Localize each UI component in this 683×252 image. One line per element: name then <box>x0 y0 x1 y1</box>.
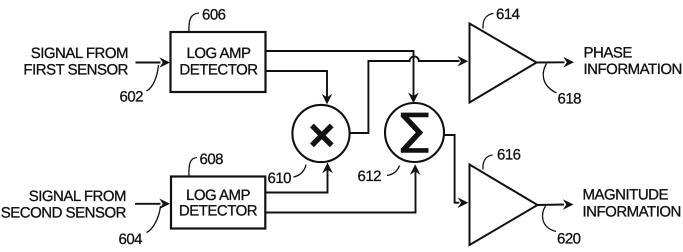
svg-text:616: 616 <box>497 147 521 164</box>
svg-text:620: 620 <box>557 231 581 248</box>
multiplier 610 circle with X symbol <box>292 105 349 162</box>
amplifier 616 triangle <box>470 165 538 246</box>
svg-text:610: 610 <box>268 170 292 187</box>
wire: multiplier 610 output up and right into amplifier 614 (hops over summer input wire) <box>350 56 469 133</box>
reference numeral 608 with leader <box>189 151 223 176</box>
reference numeral 602 with leader <box>120 65 159 106</box>
block: LOG AMP DETECTOR 606 <box>171 32 266 92</box>
node: SIGNAL FROM SECOND SENSOR input label <box>1 188 127 222</box>
wire: detector 606 upper output down into summer 612 <box>266 51 419 103</box>
reference numeral 612 with leader <box>358 166 400 186</box>
svg-text:612: 612 <box>358 168 382 185</box>
block: LOG AMP DETECTOR 608 <box>171 177 265 229</box>
svg-text:FIRST SENSOR: FIRST SENSOR <box>23 62 128 79</box>
wire: second sensor input arrow into detector 608 <box>135 199 170 210</box>
svg-text:LOG AMP: LOG AMP <box>186 45 251 62</box>
reference numeral 614 with leader <box>483 6 520 29</box>
wire: amplifier 614 output arrow to phase information <box>537 57 575 68</box>
svg-text:DETECTOR: DETECTOR <box>179 203 258 220</box>
svg-text:SIGNAL FROM: SIGNAL FROM <box>29 188 126 205</box>
node: PHASE INFORMATION output label <box>584 45 682 79</box>
wire: detector 608 upper output up into multiplier 610 <box>265 163 333 193</box>
node: MAGNITUDE INFORMATION output label <box>583 187 681 221</box>
svg-text:INFORMATION: INFORMATION <box>584 61 682 78</box>
svg-text:614: 614 <box>496 6 520 23</box>
wire: detector 606 lower output down into multiplier 610 <box>266 71 333 104</box>
wire: amplifier 616 output arrow to magnitude information <box>538 199 574 210</box>
svg-text:INFORMATION: INFORMATION <box>583 204 681 221</box>
svg-text:SECOND SENSOR: SECOND SENSOR <box>1 205 127 222</box>
amplifier 614 triangle <box>470 24 537 103</box>
svg-text:606: 606 <box>202 7 226 24</box>
reference numeral 620 with leader <box>543 206 581 248</box>
reference numeral 616 with leader <box>483 147 521 170</box>
svg-text:SIGNAL FROM: SIGNAL FROM <box>31 45 128 62</box>
svg-text:602: 602 <box>120 89 144 106</box>
reference numeral 606 with leader <box>189 7 226 32</box>
wire: detector 608 lower output up into summer 612 <box>265 164 421 212</box>
wire: first sensor input arrow into detector 606 <box>136 57 171 68</box>
node: SIGNAL FROM FIRST SENSOR input label <box>23 45 128 79</box>
svg-text:618: 618 <box>558 91 582 108</box>
reference numeral 610 with leader <box>268 165 307 188</box>
svg-text:MAGNITUDE: MAGNITUDE <box>583 187 669 204</box>
wire: summer 612 output down and right into amplifier 616 <box>444 135 468 208</box>
svg-text:DETECTOR: DETECTOR <box>179 62 258 79</box>
summer 612 circle with sigma symbol <box>385 103 444 162</box>
svg-text:604: 604 <box>119 231 143 248</box>
reference numeral 618 with leader <box>543 64 581 108</box>
reference numeral 604 with leader <box>119 206 161 248</box>
svg-text:608: 608 <box>200 151 224 168</box>
svg-text:PHASE: PHASE <box>584 45 633 62</box>
